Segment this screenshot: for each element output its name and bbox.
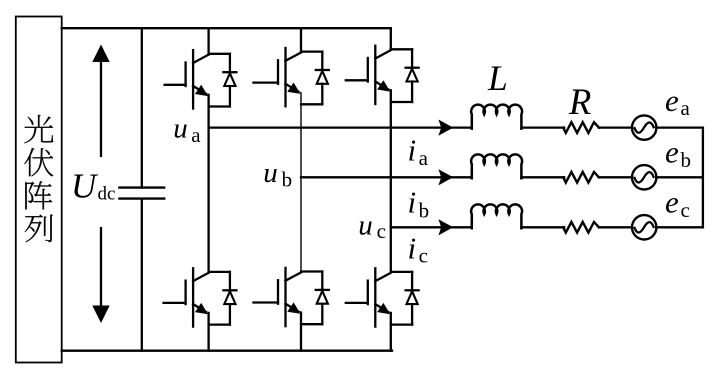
svg-text:a: a [191,123,201,147]
svg-text:i: i [408,231,417,266]
svg-text:c: c [419,244,428,268]
svg-text:u: u [358,210,373,242]
svg-text:a: a [681,96,691,120]
svg-text:e: e [665,135,679,170]
svg-text:b: b [282,168,293,192]
svg-text:c: c [681,198,690,222]
svg-text:R: R [568,81,591,122]
svg-text:c: c [377,219,386,243]
svg-text:u: u [173,113,188,145]
svg-text:i: i [408,185,417,220]
svg-text:U: U [71,166,99,205]
svg-text:i: i [408,132,417,167]
svg-text:dc: dc [98,183,116,204]
svg-text:b: b [681,148,692,172]
svg-text:L: L [487,58,508,98]
svg-text:b: b [419,198,430,222]
svg-text:e: e [665,185,679,220]
svg-text:u: u [263,157,278,189]
svg-text:a: a [419,146,429,170]
svg-text:e: e [665,83,679,118]
